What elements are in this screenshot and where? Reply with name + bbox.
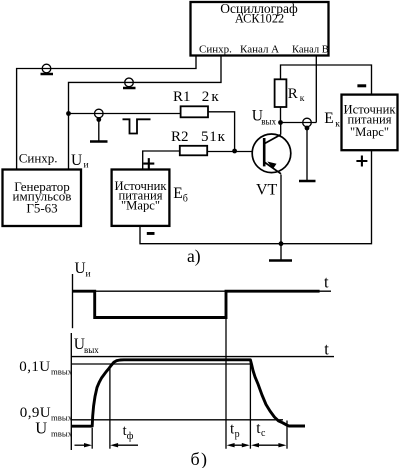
svg-text:R2: R2 [171, 129, 189, 145]
svg-text:Канал А: Канал А [240, 44, 279, 56]
svg-text:mвых: mвых [51, 429, 73, 439]
svg-text:Е: Е [324, 110, 333, 127]
svg-text:51к: 51к [201, 129, 226, 145]
svg-text:Е: Е [173, 185, 182, 202]
svg-text:R1: R1 [173, 89, 191, 105]
svg-text:вых: вых [84, 345, 99, 355]
svg-text:к: к [211, 89, 219, 105]
svg-text:и: и [86, 270, 91, 280]
svg-text:0,1U: 0,1U [19, 359, 50, 375]
svg-text:2: 2 [202, 89, 210, 105]
svg-text:t: t [324, 339, 329, 358]
svg-text:с: с [261, 428, 266, 439]
svg-text:Синхр.: Синхр. [19, 151, 58, 166]
svg-text:вых: вых [261, 116, 276, 126]
svg-text:б: б [183, 194, 188, 205]
svg-text:U: U [71, 152, 82, 169]
svg-text:б): б) [191, 449, 209, 468]
svg-text:ф: ф [127, 431, 134, 442]
svg-text:VT: VT [256, 181, 278, 198]
svg-text:R: R [288, 86, 298, 102]
svg-text:t: t [324, 273, 329, 292]
svg-text:р: р [235, 429, 240, 440]
svg-text:Г5-63: Г5-63 [26, 201, 57, 216]
svg-text:Канал В: Канал В [292, 45, 329, 56]
svg-text:а): а) [187, 246, 201, 266]
svg-text:mвых: mвых [51, 367, 73, 377]
svg-text:и: и [84, 160, 89, 170]
svg-text:U: U [35, 418, 47, 437]
svg-text:к: к [300, 94, 305, 104]
svg-text:mвых: mвых [51, 413, 73, 423]
svg-text:АСК1022: АСК1022 [235, 12, 284, 26]
svg-text:"Марс": "Марс" [121, 199, 160, 213]
svg-text:Синхр.: Синхр. [199, 44, 232, 56]
svg-text:U: U [75, 260, 86, 277]
svg-text:к: к [335, 120, 340, 130]
svg-text:"Марс": "Марс" [350, 125, 389, 139]
